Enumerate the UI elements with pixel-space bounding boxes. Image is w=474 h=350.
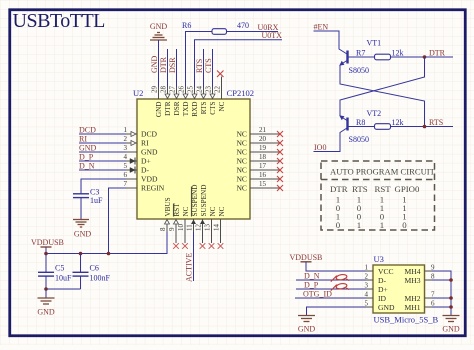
- wire DTR cross to VT2 emitter: [340, 57, 425, 116]
- svg-text:20: 20: [259, 135, 267, 143]
- svg-text:D_P: D_P: [304, 281, 319, 290]
- svg-text:CTS: CTS: [209, 102, 217, 115]
- svg-text:VBUS: VBUS: [164, 197, 172, 216]
- svg-text:GND: GND: [442, 325, 460, 334]
- U3 left pin numbers: [365, 264, 369, 308]
- svg-text:RST: RST: [173, 203, 181, 217]
- svg-text:23: 23: [205, 86, 213, 94]
- svg-text:S8050: S8050: [349, 135, 369, 144]
- wire U3 right pins to ground: [432, 271, 451, 315]
- svg-text:9: 9: [431, 264, 435, 272]
- svg-text:CP2102: CP2102: [227, 88, 254, 98]
- svg-text:USBToTTL: USBToTTL: [13, 10, 106, 32]
- wire CTS pin23: [212, 49, 214, 87]
- svg-text:C5: C5: [55, 264, 64, 273]
- wire DCD to pin1: [79, 133, 126, 135]
- U2 top pin stubs pins 29-22: [159, 77, 222, 100]
- svg-text:MH2: MH2: [404, 294, 420, 303]
- svg-text:27: 27: [169, 86, 177, 94]
- junction U3 pin7: [449, 296, 453, 300]
- svg-text:11: 11: [186, 224, 194, 231]
- svg-text:NC: NC: [236, 184, 247, 193]
- wire VBUS pin8 down to rail: [46, 232, 167, 254]
- svg-text:R8: R8: [356, 118, 365, 127]
- svg-text:CTS: CTS: [204, 58, 213, 73]
- svg-text:#EN: #EN: [314, 23, 329, 32]
- wire D_P to pin4: [79, 160, 126, 162]
- svg-text:R6: R6: [182, 21, 191, 30]
- svg-text:10uF: 10uF: [55, 274, 72, 283]
- svg-text:NC: NC: [218, 101, 226, 111]
- svg-text:GND: GND: [155, 102, 163, 118]
- wire C5 to ground: [45, 289, 47, 298]
- svg-text:ACTIVE: ACTIVE: [185, 253, 194, 282]
- U2 right pin stubs pins 21-15: [250, 134, 280, 188]
- wire D_P to U3 pin3: [296, 288, 366, 290]
- capacitor C5: [38, 254, 72, 290]
- resistor R8 12k: [356, 118, 404, 129]
- svg-text:3: 3: [365, 282, 369, 290]
- svg-text:1: 1: [380, 220, 384, 230]
- svg-text:5: 5: [365, 300, 369, 308]
- svg-text:GND: GND: [79, 144, 97, 153]
- svg-text:RI: RI: [141, 139, 149, 148]
- svg-text:VCC: VCC: [378, 267, 394, 276]
- U2 top pin numbers 29-22: [151, 86, 222, 94]
- svg-text:SUSPEND: SUSPEND: [191, 185, 199, 217]
- svg-text:REGIN: REGIN: [141, 184, 165, 193]
- no-ERC X marks bottom pins: [173, 243, 223, 249]
- U2 bottom inner pin names: [164, 185, 226, 217]
- svg-text:GND: GND: [378, 303, 395, 312]
- svg-text:RI: RI: [79, 135, 87, 144]
- svg-text:RTS: RTS: [352, 184, 368, 194]
- svg-text:DTR: DTR: [164, 101, 172, 116]
- wire VT1 emitter cross to RTS: [340, 65, 425, 127]
- diff pair mark D_P: [331, 283, 349, 291]
- wire D_N to pin5: [79, 169, 126, 171]
- svg-text:USB_Micro_5S_B: USB_Micro_5S_B: [374, 315, 439, 325]
- svg-text:GND: GND: [37, 308, 55, 317]
- junction RTS: [423, 125, 427, 129]
- U2 right pin numbers 21-15: [259, 126, 267, 188]
- svg-text:D-: D-: [141, 166, 149, 175]
- wire VT1 base to R7: [349, 56, 375, 58]
- capacitor C3: [73, 188, 103, 206]
- svg-text:NC: NC: [236, 166, 247, 175]
- svg-text:AUTO PROGRAM CIRCUIT: AUTO PROGRAM CIRCUIT: [330, 167, 436, 177]
- resistor R6: [182, 21, 249, 34]
- diff pair mark D_N: [331, 274, 349, 282]
- svg-text:S8050: S8050: [349, 66, 369, 75]
- svg-text:8: 8: [159, 227, 167, 231]
- auto program circuit table: [321, 161, 436, 230]
- svg-text:MH4: MH4: [404, 267, 420, 276]
- svg-text:13: 13: [204, 224, 212, 232]
- svg-text:9: 9: [168, 227, 176, 231]
- wire RXD pin25 to U0TX: [195, 40, 283, 87]
- svg-text:7: 7: [124, 180, 128, 188]
- wire SUSPEND pin11 ACTIVE: [193, 232, 195, 281]
- svg-text:RST: RST: [375, 184, 392, 194]
- svg-text:7: 7: [431, 291, 435, 299]
- svg-text:NC: NC: [236, 139, 247, 148]
- pin arrows pins 4,5: [130, 159, 135, 173]
- junction REGIN rail: [107, 252, 111, 256]
- svg-text:DCD: DCD: [79, 126, 96, 135]
- svg-text:TXD: TXD: [182, 102, 190, 117]
- svg-text:21: 21: [259, 126, 267, 134]
- no-ERC X pin 22: [217, 71, 224, 78]
- op-amp U2 body CP2102: [133, 88, 254, 219]
- U2 bottom pin stubs pins 8-14: [167, 219, 221, 243]
- svg-text:NC: NC: [182, 206, 190, 216]
- capacitor C6: [73, 254, 111, 290]
- ground U3 left: [298, 316, 316, 334]
- ground below C5: [37, 298, 55, 317]
- ground U3 right: [442, 316, 460, 334]
- svg-text:6: 6: [431, 300, 435, 308]
- svg-text:GND: GND: [150, 22, 168, 31]
- svg-text:NC: NC: [236, 148, 247, 157]
- svg-text:1: 1: [124, 126, 128, 134]
- power port VDDUSB right: [290, 253, 323, 262]
- svg-text:18: 18: [259, 153, 267, 161]
- ground below C3: [73, 220, 91, 239]
- U2 left pin stubs pins 1-7: [126, 134, 137, 188]
- wire U3 pin5 to ground: [307, 307, 367, 315]
- svg-text:GND: GND: [141, 148, 158, 157]
- svg-text:29: 29: [151, 86, 159, 94]
- wire DSR pin27: [176, 49, 178, 87]
- wire C3 to ground: [80, 198, 82, 219]
- no-ERC X marks right pins: [277, 131, 283, 191]
- junction DTR: [423, 55, 427, 59]
- svg-text:2: 2: [365, 273, 369, 281]
- svg-text:D_P: D_P: [79, 153, 94, 162]
- svg-text:VDD: VDD: [141, 175, 158, 184]
- junction C5 bottom: [44, 287, 48, 291]
- svg-text:RTS: RTS: [429, 118, 443, 127]
- svg-text:R7: R7: [356, 49, 365, 58]
- svg-text:NC: NC: [209, 206, 217, 216]
- svg-text:D-: D-: [378, 276, 386, 285]
- wire GND port to pin29: [158, 40, 160, 87]
- svg-text:D_N: D_N: [79, 162, 95, 171]
- svg-text:DTR: DTR: [330, 184, 348, 194]
- svg-text:4: 4: [124, 153, 128, 161]
- U2 right inner pin names NC: [236, 130, 247, 193]
- svg-text:470: 470: [237, 21, 249, 30]
- svg-text:DSR: DSR: [168, 57, 177, 73]
- svg-text:22: 22: [214, 86, 222, 94]
- junction U3 pin8: [449, 278, 453, 282]
- transistor VT1 S8050: [339, 39, 381, 76]
- bottom pin decorations: [165, 220, 179, 225]
- svg-text:3: 3: [124, 144, 128, 152]
- svg-text:U2: U2: [133, 88, 143, 98]
- svg-text:GND: GND: [74, 230, 92, 239]
- U2 left pin numbers 1-7: [124, 126, 128, 188]
- svg-text:DCD: DCD: [141, 130, 158, 139]
- svg-text:MH1: MH1: [404, 303, 420, 312]
- svg-text:15: 15: [259, 180, 267, 188]
- svg-text:VT2: VT2: [367, 109, 382, 118]
- U3 inner pin names: [378, 267, 395, 312]
- svg-text:NC: NC: [236, 130, 247, 139]
- svg-text:U3: U3: [374, 254, 384, 264]
- wire OTG_ID to U3 pin4: [295, 297, 366, 299]
- svg-text:DTR: DTR: [429, 49, 446, 58]
- svg-text:NC: NC: [236, 175, 247, 184]
- U3 right pin numbers: [431, 264, 435, 308]
- svg-text:1: 1: [357, 220, 361, 230]
- svg-text:24: 24: [196, 86, 204, 94]
- svg-text:RXD: RXD: [191, 102, 199, 117]
- svg-text:12: 12: [195, 224, 203, 232]
- svg-text:17: 17: [259, 162, 267, 170]
- svg-text:4: 4: [365, 291, 369, 299]
- wire C5 C6 bottoms: [46, 288, 81, 290]
- transistor VT2 S8050: [339, 109, 381, 144]
- svg-text:NC: NC: [236, 157, 247, 166]
- svg-text:5: 5: [124, 162, 128, 170]
- svg-text:VT1: VT1: [367, 39, 382, 48]
- wire VT2 base to R8: [349, 126, 375, 128]
- svg-text:D+: D+: [378, 285, 388, 294]
- svg-text:RTS: RTS: [195, 59, 204, 73]
- junction U3 pin6: [449, 305, 453, 309]
- wire REGIN pin7 down to rail: [109, 188, 127, 254]
- svg-text:GND: GND: [150, 55, 159, 73]
- svg-text:2: 2: [124, 135, 128, 143]
- svg-text:1: 1: [365, 264, 369, 272]
- wire D_N to U3 pin2: [296, 279, 366, 281]
- wire GND to pin3: [79, 151, 126, 153]
- svg-text:14: 14: [213, 224, 221, 232]
- svg-text:VDDUSB: VDDUSB: [31, 238, 64, 247]
- svg-text:GPIO0: GPIO0: [395, 184, 421, 194]
- svg-text:MH3: MH3: [404, 276, 420, 285]
- svg-text:NC: NC: [218, 206, 226, 216]
- svg-text:DTR: DTR: [159, 56, 168, 73]
- svg-text:19: 19: [259, 144, 267, 152]
- svg-text:0: 0: [402, 220, 407, 230]
- U2 left inner pin names: [141, 130, 165, 193]
- svg-text:100nF: 100nF: [90, 274, 111, 283]
- svg-text:6: 6: [124, 171, 128, 179]
- U3 right pin stubs: [425, 271, 433, 307]
- svg-text:16: 16: [259, 171, 267, 179]
- U3 left pin stubs: [366, 271, 373, 307]
- power port VDDUSB left: [31, 238, 64, 254]
- top pin decorations: [165, 94, 215, 99]
- U2 bottom pin numbers 8-14: [159, 224, 221, 232]
- wire DTR pin28: [167, 49, 169, 87]
- svg-text:OTG_ID: OTG_ID: [303, 290, 332, 299]
- svg-text:12k: 12k: [392, 118, 404, 127]
- svg-text:10: 10: [177, 224, 185, 232]
- svg-text:C6: C6: [90, 264, 99, 273]
- svg-text:26: 26: [178, 86, 186, 94]
- svg-text:GND: GND: [298, 325, 316, 334]
- pin arrows pins 1,2: [131, 132, 136, 146]
- svg-text:D+: D+: [141, 157, 151, 166]
- wire RI to pin2: [79, 142, 126, 144]
- wire RTS pin24: [203, 49, 205, 87]
- wire VDDUSB to U3 pin1: [306, 262, 366, 271]
- resistor R7 12k: [356, 49, 404, 60]
- svg-text:28: 28: [160, 86, 168, 94]
- svg-text:1uF: 1uF: [90, 196, 103, 205]
- wire VT2 collector to IO0: [314, 128, 348, 152]
- svg-text:SUSPEND: SUSPEND: [200, 185, 208, 217]
- svg-text:25: 25: [187, 86, 195, 94]
- svg-text:RTS: RTS: [200, 101, 208, 114]
- svg-text:8: 8: [431, 273, 435, 281]
- svg-text:IO0: IO0: [314, 143, 326, 152]
- power port GND top: [150, 22, 168, 40]
- svg-text:0: 0: [336, 220, 341, 230]
- U2 top inner pin names: [155, 101, 226, 117]
- svg-text:VDDUSB: VDDUSB: [290, 253, 323, 262]
- wire RTS junction to label: [425, 126, 454, 128]
- svg-text:12k: 12k: [392, 49, 404, 58]
- wire #EN to VT1 collector: [314, 31, 348, 54]
- connector U3 body USB_Micro_5S_B: [373, 254, 439, 325]
- svg-text:DSR: DSR: [173, 101, 181, 115]
- svg-text:ID: ID: [378, 294, 387, 303]
- wire VDD pin6 to C3: [81, 179, 126, 194]
- svg-text:U0TX: U0TX: [262, 31, 283, 40]
- junction C6 rail: [79, 252, 83, 256]
- wire R6 to U0RX: [227, 31, 279, 33]
- wire R7 to DTR junction: [391, 56, 425, 58]
- wire R8 to RTS junction: [391, 126, 425, 128]
- wire TXD pin26 to R6: [186, 32, 213, 88]
- svg-text:D_N: D_N: [304, 272, 320, 281]
- junction VDDUSB C5: [44, 252, 48, 256]
- wire DTR junction to label: [425, 56, 454, 58]
